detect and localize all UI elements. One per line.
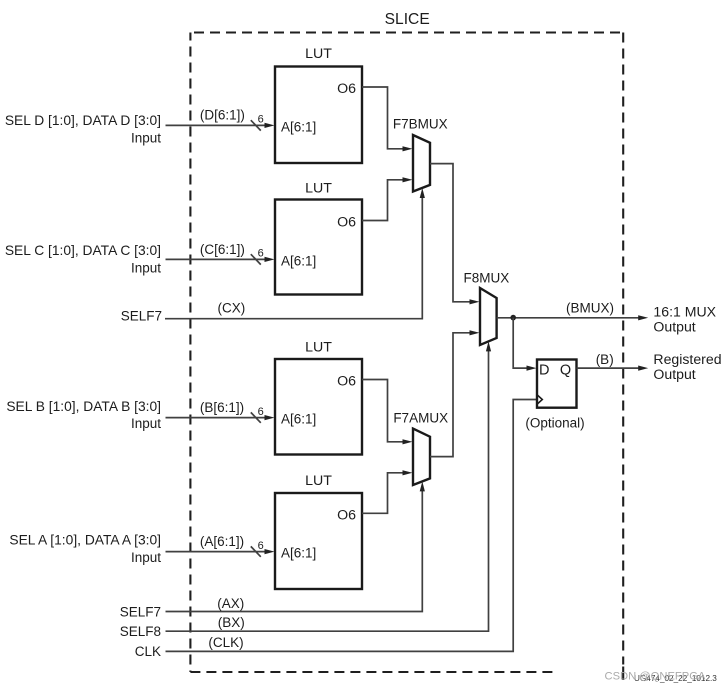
arrowhead <box>403 177 413 182</box>
arrowhead <box>486 341 491 351</box>
svg-text:SLICE: SLICE <box>385 11 430 28</box>
svg-text:F7AMUX: F7AMUX <box>393 411 448 426</box>
LUT A box <box>275 473 362 589</box>
svg-text:Input: Input <box>131 550 161 565</box>
svg-text:SELF8: SELF8 <box>120 624 161 639</box>
wire LUT A O6 to F7AMUX in1 <box>362 473 404 514</box>
svg-text:A[6:1]: A[6:1] <box>281 253 316 268</box>
svg-text:LUT: LUT <box>305 340 332 356</box>
svg-text:(BX): (BX) <box>218 615 245 630</box>
slice dashed boundary <box>190 33 623 673</box>
mux F8MUX <box>464 271 510 345</box>
svg-text:Registered: Registered <box>653 351 721 367</box>
svg-text:Input: Input <box>131 260 161 275</box>
arrowhead <box>638 315 648 320</box>
svg-text:6: 6 <box>258 406 264 418</box>
svg-text:Output: Output <box>653 319 695 335</box>
svg-text:Output: Output <box>653 366 695 382</box>
LUT B box <box>275 340 362 455</box>
wire LUT D O6 to F7BMUX in0 <box>362 87 404 149</box>
arrowhead <box>265 123 275 128</box>
wire SELF7 (CX) to F7BMUX select <box>165 196 422 319</box>
flip-flop register box <box>525 360 584 431</box>
wire LUT B O6 to F7AMUX in0 <box>362 380 404 442</box>
mux F7AMUX <box>393 411 448 485</box>
arrowhead <box>265 257 275 262</box>
svg-text:F7BMUX: F7BMUX <box>393 117 448 132</box>
arrowhead <box>420 481 425 491</box>
junction node BMUX <box>510 315 516 321</box>
wire SELF7 (AX) to F7AMUX select <box>166 490 423 612</box>
svg-text:O6: O6 <box>337 507 356 523</box>
svg-text:6: 6 <box>258 248 264 260</box>
arrowhead <box>403 439 413 444</box>
svg-text:(D[6:1]): (D[6:1]) <box>200 108 245 123</box>
arrowhead <box>265 549 275 554</box>
svg-text:6: 6 <box>258 540 264 552</box>
arrowhead <box>265 415 275 420</box>
svg-text:(B[6:1]): (B[6:1]) <box>200 400 244 415</box>
wire LUT C O6 to F7BMUX in1 <box>362 180 404 221</box>
svg-text:(CLK): (CLK) <box>208 635 243 650</box>
svg-text:(BMUX): (BMUX) <box>566 301 614 316</box>
wire BMUX to flip-flop D <box>513 318 528 368</box>
arrowhead <box>638 366 648 371</box>
svg-text:SEL A [1:0], DATA A [3:0]: SEL A [1:0], DATA A [3:0] <box>9 532 161 547</box>
svg-text:(AX): (AX) <box>217 596 244 611</box>
svg-text:A[6:1]: A[6:1] <box>281 412 316 427</box>
svg-text:LUT: LUT <box>305 473 332 489</box>
wire F7BMUX out to F8MUX in0 <box>430 164 471 302</box>
svg-text:SEL C [1:0], DATA C [3:0]: SEL C [1:0], DATA C [3:0] <box>5 243 161 258</box>
arrowhead <box>420 188 425 198</box>
svg-text:CLK: CLK <box>135 644 161 659</box>
watermark background <box>556 665 723 689</box>
LUT D box <box>275 46 362 163</box>
svg-text:Input: Input <box>131 416 161 431</box>
svg-text:LUT: LUT <box>305 181 332 197</box>
svg-text:(Optional): (Optional) <box>525 415 584 430</box>
svg-text:6: 6 <box>258 114 264 126</box>
svg-text:16:1 MUX: 16:1 MUX <box>653 303 716 319</box>
svg-text:SELF7: SELF7 <box>120 604 161 619</box>
wire flip-flop Q out (B) <box>577 367 640 369</box>
flip-flop clock wedge <box>537 395 542 405</box>
wire CLK to flip-flop clock <box>166 400 537 652</box>
arrowhead <box>470 299 480 304</box>
svg-text:(A[6:1]): (A[6:1]) <box>200 534 244 549</box>
svg-text:O6: O6 <box>337 215 356 231</box>
wire SELF8 (BX) to F8MUX select <box>166 349 489 631</box>
svg-text:F8MUX: F8MUX <box>464 271 510 286</box>
arrowhead <box>527 366 537 371</box>
svg-text:(C[6:1]): (C[6:1]) <box>200 242 245 257</box>
wire input C <box>166 254 267 264</box>
svg-text:Input: Input <box>131 130 161 145</box>
svg-text:LUT: LUT <box>305 46 332 62</box>
svg-text:(CX): (CX) <box>218 300 246 315</box>
arrowhead <box>403 146 413 151</box>
svg-text:SEL D [1:0], DATA D [3:0]: SEL D [1:0], DATA D [3:0] <box>5 113 161 128</box>
wire F8MUX out (BMUX) <box>497 317 640 319</box>
svg-text:O6: O6 <box>337 81 356 97</box>
wire F7AMUX out to F8MUX in1 <box>430 333 471 457</box>
svg-text:A[6:1]: A[6:1] <box>281 119 316 134</box>
svg-text:O6: O6 <box>337 374 356 390</box>
svg-text:CSDN @QNEFPGA: CSDN @QNEFPGA <box>605 670 706 682</box>
svg-text:SELF7: SELF7 <box>121 309 162 324</box>
svg-text:Q: Q <box>560 362 571 378</box>
svg-text:SEL B [1:0], DATA B [3:0]: SEL B [1:0], DATA B [3:0] <box>6 399 161 414</box>
arrowhead <box>403 470 413 475</box>
LUT C box <box>275 181 362 295</box>
wire input D <box>166 120 267 130</box>
wire input B <box>166 412 267 422</box>
svg-text:A[6:1]: A[6:1] <box>281 546 316 561</box>
mux F7BMUX <box>393 117 448 192</box>
svg-text:D: D <box>539 362 549 378</box>
svg-text:(B): (B) <box>596 352 614 367</box>
wire input A <box>166 546 267 556</box>
arrowhead <box>470 330 480 335</box>
